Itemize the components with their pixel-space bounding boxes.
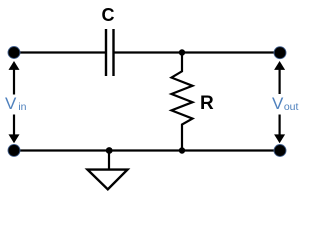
Vout arrow up bbox=[274, 61, 285, 94]
terminal node Vout bottom bbox=[274, 145, 286, 157]
svg-text:C: C bbox=[102, 5, 115, 25]
wire top-right (capacitor to Vout node) bbox=[115, 51, 281, 53]
capacitor C bbox=[106, 29, 114, 76]
Vin arrow up bbox=[9, 61, 20, 95]
terminal node Vin top bbox=[8, 47, 20, 59]
junction node top (resistor to top wire) bbox=[179, 49, 185, 55]
Vin arrow down bbox=[9, 115, 20, 144]
junction node ground tap bbox=[106, 147, 113, 154]
junction node bottom (resistor to bottom wire) bbox=[179, 147, 185, 153]
wire top-left (Vin node to capacitor) bbox=[14, 51, 105, 53]
Vout arrow down bbox=[274, 115, 285, 144]
svg-text:Vout: Vout bbox=[272, 94, 299, 113]
svg-text:R: R bbox=[200, 93, 214, 114]
ground bbox=[88, 151, 128, 190]
resistor R bbox=[172, 53, 193, 151]
terminal node Vout top bbox=[274, 47, 286, 59]
wire bottom (Vin node to Vout node) bbox=[14, 149, 280, 151]
terminal node Vin bottom bbox=[8, 144, 20, 156]
svg-text:Vin: Vin bbox=[5, 94, 27, 113]
